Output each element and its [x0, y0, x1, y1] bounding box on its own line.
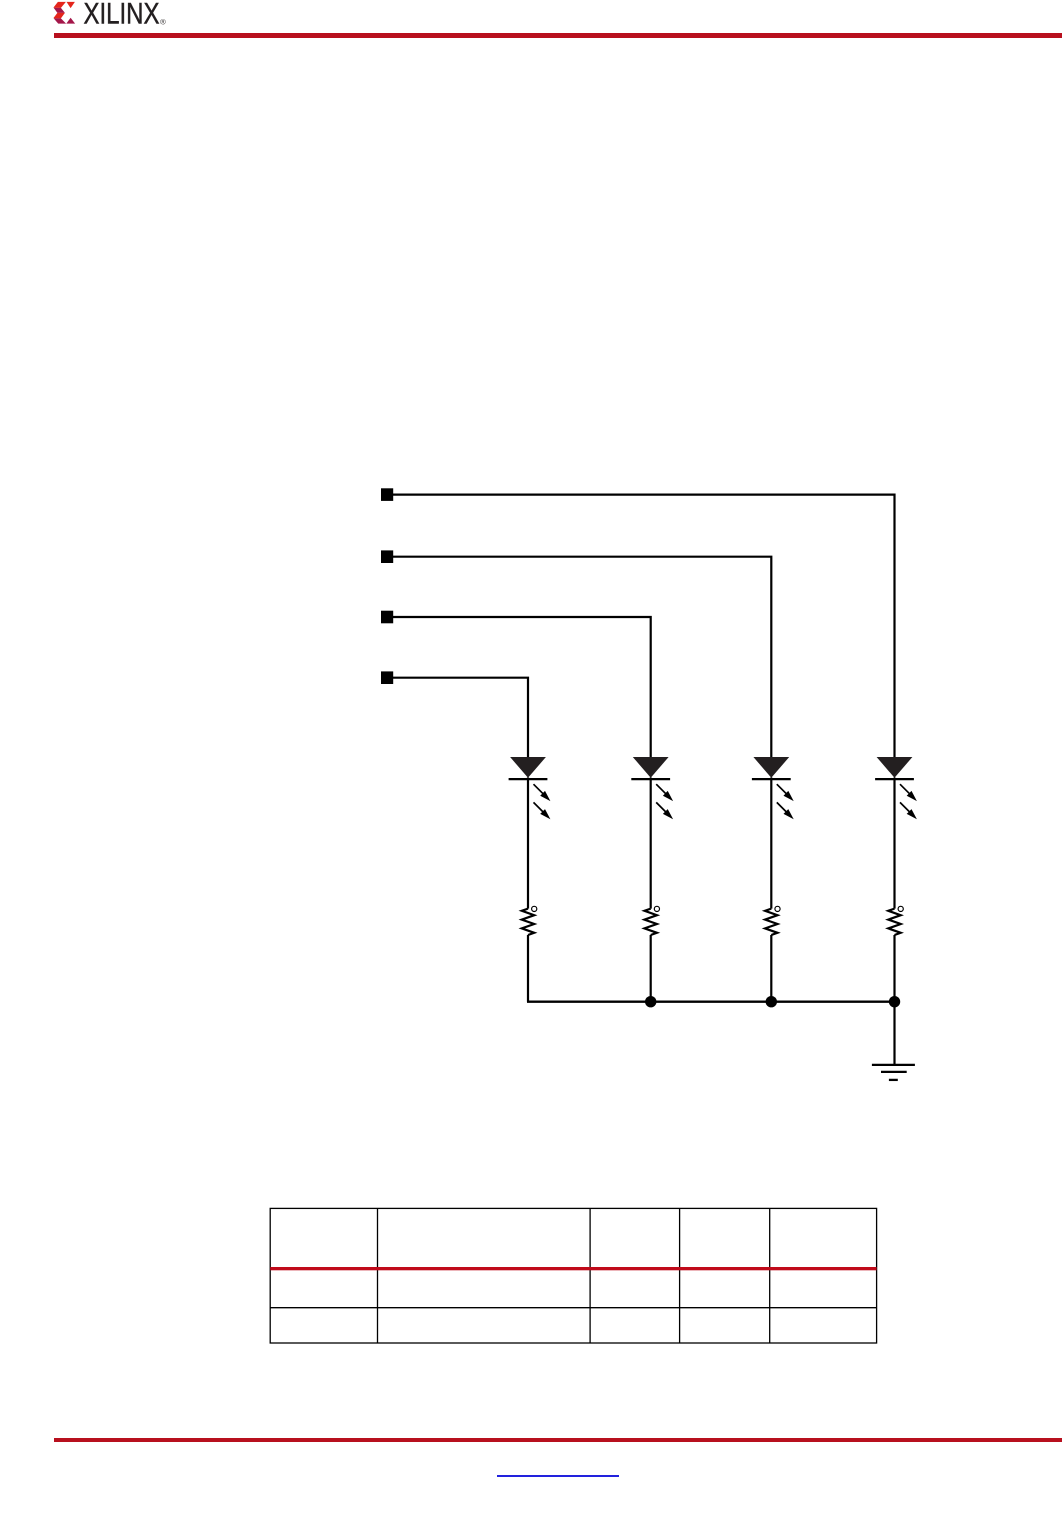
svg-text:®: ®: [160, 17, 166, 26]
svg-text:XILINX: XILINX: [84, 0, 160, 30]
